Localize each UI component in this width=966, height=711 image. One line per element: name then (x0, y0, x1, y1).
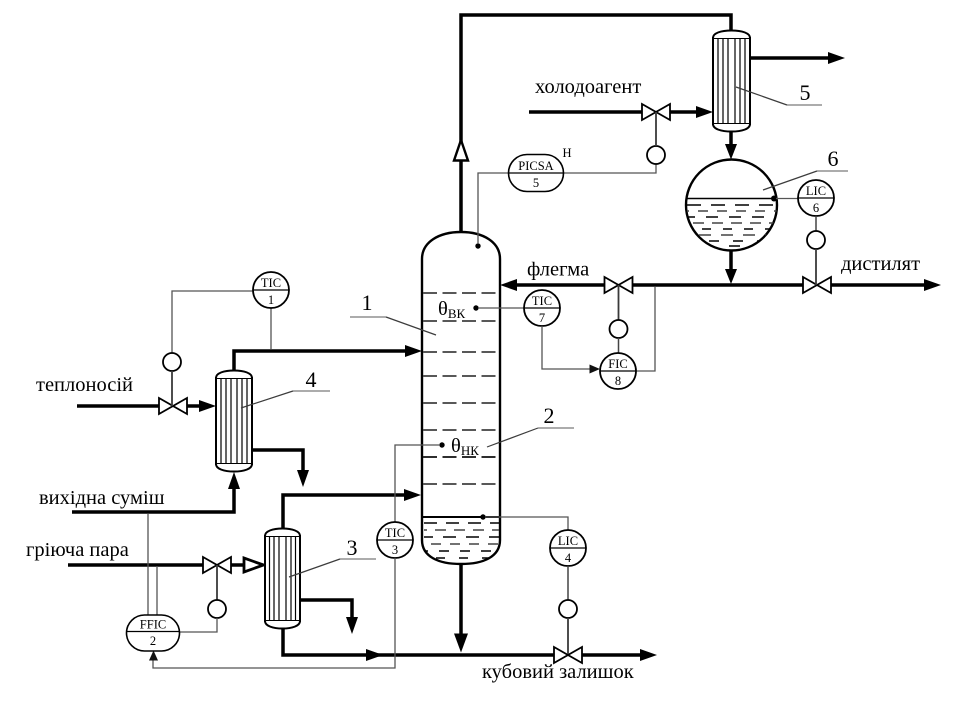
reboiler 3 (265, 529, 300, 629)
wire: reflux / distillate header (514, 283, 927, 287)
valve coolant (642, 104, 670, 120)
actuator reflux valve (610, 320, 628, 338)
wire: drum bottom to header (729, 250, 733, 271)
signal wire: TIC1 tap on feed line (270, 308, 272, 349)
column liquid level (423, 516, 499, 518)
svg-text:3: 3 (392, 543, 398, 557)
svg-text:кубовий залишок: кубовий залишок (482, 661, 634, 683)
label 1 leader (350, 290, 436, 335)
hollow flow arrow on riser (454, 140, 468, 161)
instrument TIC 7 (524, 290, 560, 326)
svg-text:FIC: FIC (608, 357, 627, 371)
actuator bottoms valve (559, 600, 577, 618)
signal wire: reflux valve actuator (618, 285, 620, 320)
svg-text:6: 6 (828, 146, 839, 171)
svg-text:H: H (562, 146, 571, 160)
label 4 leader (241, 367, 330, 408)
instrument PICSA 5 (509, 146, 572, 192)
wire: condenser coolant outlet (750, 56, 830, 60)
wire: preheated feed to column (234, 351, 409, 370)
svg-text:дистилят: дистилят (841, 253, 920, 275)
wire: reboiler vapor return (283, 495, 407, 528)
signal wire: TIC7 to FIC8 (542, 326, 591, 369)
valve steam (203, 557, 231, 573)
reflux drum 6 (686, 160, 777, 251)
signal wire: FFIC2 feed flow tap (147, 514, 149, 615)
actuator heat carrier valve (163, 353, 181, 371)
label 2 leader (487, 403, 574, 447)
heat exchanger 4 (216, 371, 252, 472)
instrument TIC 3 (377, 522, 413, 558)
svg-text:FFIC: FFIC (140, 618, 166, 632)
signal wire: PICSA5 to coolant valve (564, 164, 656, 173)
wire: exchanger 4 outlet drain (252, 450, 303, 472)
label 3 leader (289, 535, 376, 577)
valve reflux (605, 277, 633, 293)
svg-text:7: 7 (539, 311, 545, 325)
column trays (423, 293, 499, 484)
svg-text:LIC: LIC (806, 184, 826, 198)
svg-text:8: 8 (615, 374, 621, 388)
wire: bottoms line (283, 627, 643, 655)
wire: гріюча пара steam line (68, 563, 243, 567)
node: column top tap (475, 243, 480, 248)
svg-text:2: 2 (150, 634, 156, 648)
svg-text:2: 2 (544, 403, 555, 428)
signal wire: LIC4 level tap (480, 514, 485, 519)
signal wire: TIC1 to heat carrier valve (172, 291, 253, 353)
wire: reboiler condensate drain (300, 600, 352, 619)
wire: column bottom outlet (459, 564, 463, 635)
actuator distillate valve (807, 231, 825, 249)
wire: холодоагент coolant inlet (529, 110, 643, 114)
svg-text:флегма: флегма (527, 259, 589, 281)
svg-text:1: 1 (268, 293, 274, 307)
label 5 leader (736, 80, 822, 105)
signal wire: TIC7 tap (473, 305, 478, 310)
instrument LIC 4 (550, 530, 586, 566)
svg-text:TIC: TIC (532, 294, 552, 308)
actuator steam valve (208, 600, 226, 618)
instrument FFIC 2 (127, 615, 180, 651)
svg-text:4: 4 (565, 551, 572, 565)
svg-text:холодоагент: холодоагент (535, 76, 641, 98)
label 6 leader (763, 146, 848, 190)
svg-text:5: 5 (533, 176, 539, 190)
signal wire: LIC4 to bottoms valve (567, 566, 569, 600)
svg-text:3: 3 (347, 535, 358, 560)
valve distillate (803, 277, 831, 293)
signal wire: TIC3 to FFIC2 (153, 558, 395, 668)
wire: вихідна суміш feed line (72, 486, 234, 512)
condenser 5 (713, 31, 750, 132)
svg-text:5: 5 (800, 80, 811, 105)
signal wire: LIC6 level tap (771, 196, 777, 202)
svg-text:1: 1 (362, 290, 373, 315)
valve heat carrier (159, 398, 187, 414)
svg-text:PICSA: PICSA (518, 159, 553, 173)
svg-text:TIC: TIC (261, 276, 281, 290)
column 1/2 body (422, 232, 500, 564)
instrument TIC 1 (253, 272, 289, 308)
actuator coolant valve (647, 146, 665, 164)
wire: condenser to drum (729, 132, 733, 148)
hollow arrow into reboiler (244, 558, 264, 572)
wire: vapor riser column top to condenser (461, 15, 731, 234)
signal wire: LIC6 to distillate valve (815, 216, 817, 231)
signal wire: TIC3 temperature tap (439, 442, 444, 447)
signal wire: PICSA5 to column top (478, 173, 509, 243)
svg-text:TIC: TIC (385, 526, 405, 540)
svg-text:теплоносій: теплоносій (36, 374, 133, 396)
valve bottoms (554, 647, 582, 663)
wire: теплоносій inlet (77, 404, 199, 408)
instrument FIC 8 (600, 353, 636, 389)
signal wire: FFIC2 steam flow tap (156, 566, 158, 615)
svg-text:4: 4 (306, 367, 317, 392)
instrument LIC 6 (798, 180, 834, 216)
svg-text:вихідна суміш: вихідна суміш (39, 487, 165, 509)
signal wire: FFIC2 to steam valve (216, 565, 218, 600)
signal wire: FIC8 flow tap (636, 287, 655, 371)
svg-text:гріюча пара: гріюча пара (26, 539, 129, 561)
svg-text:LIC: LIC (558, 534, 578, 548)
svg-text:6: 6 (813, 201, 819, 215)
